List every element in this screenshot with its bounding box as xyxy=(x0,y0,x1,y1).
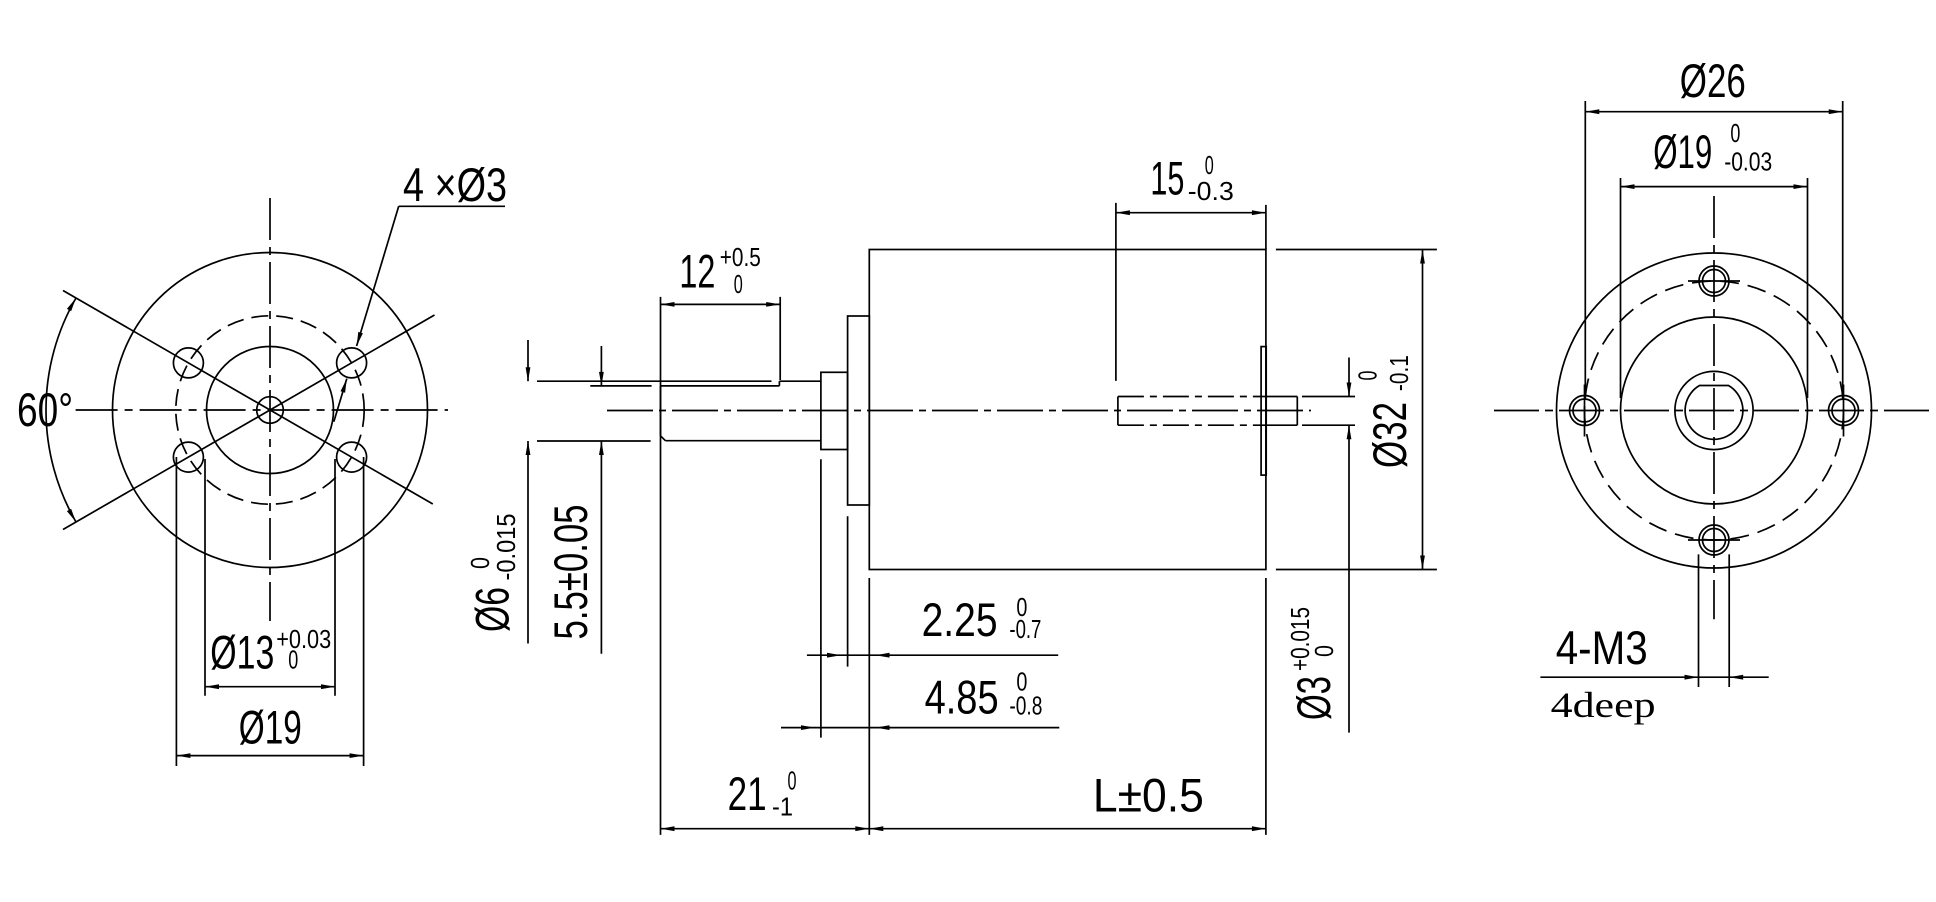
svg-text:2.25: 2.25 xyxy=(922,593,998,646)
middle view: 12 dimension line xyxy=(661,303,781,305)
svg-text:-0.015: -0.015 xyxy=(491,514,521,581)
right view: center boss circle xyxy=(1675,371,1753,449)
svg-text:-0.03: -0.03 xyxy=(1724,147,1772,177)
left view: leader underline 4×Ø3 xyxy=(399,205,505,207)
right view: Ø26 dimension line xyxy=(1585,111,1842,113)
svg-text:-0.1: -0.1 xyxy=(1384,355,1414,391)
right view: pilot circle Ø19 xyxy=(1621,317,1808,504)
middle view: L left arrowhead xyxy=(869,826,883,831)
middle view: 5.5 dimension line lower xyxy=(600,441,602,654)
left view: leader tail below hole xyxy=(334,379,347,422)
right view: 4-M3 left extension line xyxy=(1698,554,1700,687)
left view: Ø13 right arrowhead xyxy=(321,684,335,689)
right view: 4-M3 dimension line xyxy=(1540,676,1768,678)
right view: right M3 hole major circle xyxy=(1829,396,1859,426)
middle view: rear bearing plate xyxy=(1261,347,1266,476)
svg-text:0: 0 xyxy=(288,645,298,675)
middle view: 12 left arrowhead xyxy=(661,302,675,307)
middle view: 4.85 right arrowhead xyxy=(876,725,890,730)
middle view: 12 right extension line xyxy=(779,297,781,380)
middle view: Ø6 dimension line lower xyxy=(527,441,529,644)
middle view: shaft end face xyxy=(660,386,662,436)
svg-text:4-M3: 4-M3 xyxy=(1556,621,1648,674)
svg-text:-0.7: -0.7 xyxy=(1009,614,1041,644)
middle view: shaft flat top line xyxy=(661,385,780,387)
left view: Ø19 left arrowhead xyxy=(176,753,190,758)
middle view: Ø3 dimension line upper xyxy=(1348,358,1350,397)
left view: upper-left hole Ø3 xyxy=(173,348,203,378)
middle view: shaft bottom line xyxy=(665,440,821,442)
left view: Ø19 left extension line xyxy=(175,457,177,766)
svg-text:0: 0 xyxy=(1730,118,1740,148)
svg-text:+0.5: +0.5 xyxy=(720,242,761,272)
svg-text:0: 0 xyxy=(1309,645,1339,657)
svg-text:4 ×Ø3: 4 ×Ø3 xyxy=(403,158,507,211)
left view: lower-left hole Ø3 xyxy=(173,442,203,472)
right view: Ø19 left arrowhead xyxy=(1621,184,1635,189)
left view: boss circle Ø13 xyxy=(207,347,334,474)
left view: leader arrowhead at hole (upper) xyxy=(357,332,363,346)
middle view: 15 right extension line xyxy=(1265,205,1267,250)
right view: 4-M3 right extension line xyxy=(1728,554,1730,687)
middle view: Ø3 bottom arrowhead xyxy=(1347,425,1352,439)
middle view: rear shaft right end face xyxy=(1296,397,1298,426)
middle view: 2.25 left extension line xyxy=(820,459,822,737)
right view: left M3 hole major circle xyxy=(1570,396,1600,426)
middle view: bearing boss xyxy=(821,372,848,449)
middle view: L dimension line xyxy=(869,828,1266,830)
left view: Ø13 right extension line xyxy=(334,459,336,696)
left view: Ø13 left arrowhead xyxy=(205,684,219,689)
svg-text:Ø19: Ø19 xyxy=(239,701,302,754)
right view: bottom M3 hole minor circle xyxy=(1703,529,1726,552)
svg-text:-0.8: -0.8 xyxy=(1009,691,1042,721)
svg-text:5.5±0.05: 5.5±0.05 xyxy=(544,505,597,640)
left view: diagonal centerline LL-UR xyxy=(63,315,435,530)
right view: shaft circle with flat xyxy=(1685,386,1743,440)
left view: Ø19 right extension line xyxy=(363,457,365,766)
svg-text:Ø19: Ø19 xyxy=(1653,125,1712,178)
middle view: 15 dimension line xyxy=(1116,212,1266,214)
middle view: rear shaft bottom line (hidden) xyxy=(1118,424,1261,426)
svg-text:L±0.5: L±0.5 xyxy=(1093,769,1204,822)
middle view: 5.5 top arrowhead xyxy=(599,372,604,386)
middle view: Ø6 dimension line upper xyxy=(527,340,529,381)
left view: 60° dimension arc xyxy=(46,298,76,522)
middle view: Ø6 top extension line xyxy=(537,380,772,382)
middle view: Ø32 bottom extension line xyxy=(1276,569,1437,571)
middle view: Ø32 dimension line xyxy=(1422,250,1424,570)
left view: vertical centerline xyxy=(269,198,271,621)
middle view: Ø32 bottom arrowhead xyxy=(1420,556,1425,570)
left view: lower-right hole Ø3 xyxy=(337,442,367,472)
middle view: L right extension line xyxy=(1265,578,1267,835)
middle view: 15 left extension line xyxy=(1115,203,1117,381)
svg-text:Ø6: Ø6 xyxy=(466,587,519,632)
middle view: 2.25 left arrowhead xyxy=(827,653,841,658)
middle view: 12 right arrowhead xyxy=(766,302,780,307)
svg-text:-1: -1 xyxy=(772,791,793,821)
right view: outer circle body Ø32 xyxy=(1557,253,1872,568)
middle view: Ø32 top extension line xyxy=(1276,249,1437,251)
left view: Ø19 dimension line xyxy=(176,755,363,757)
svg-text:4.85: 4.85 xyxy=(925,671,999,724)
middle view: Ø6 bottom arrowhead xyxy=(526,441,531,455)
left view: Ø13 left extension line xyxy=(204,459,206,696)
svg-text:15: 15 xyxy=(1150,151,1184,204)
right view: top M3 hole major circle xyxy=(1699,266,1729,296)
left view: horizontal centerline xyxy=(76,409,448,411)
middle view: L right arrowhead xyxy=(1252,826,1266,831)
right view: Ø19 right arrowhead xyxy=(1794,184,1808,189)
middle view: 2.25 right extension line xyxy=(847,516,849,666)
svg-text:60°: 60° xyxy=(17,383,73,436)
right view: 4-M3 right arrowhead xyxy=(1729,675,1743,680)
right view: bolt circle Ø26 (dashed) xyxy=(1585,281,1844,540)
svg-text:4deep: 4deep xyxy=(1551,685,1656,725)
right view: left hole vertical tick xyxy=(1584,385,1586,437)
middle view: 4.85 left arrowhead xyxy=(801,725,815,730)
left view: Ø19 right arrowhead xyxy=(350,753,364,758)
svg-text:0: 0 xyxy=(1353,371,1383,381)
middle view: 15 right arrowhead xyxy=(1252,210,1266,215)
right view: Ø26 left extension line xyxy=(1584,101,1586,400)
middle view: Ø6 bottom extension line xyxy=(537,440,651,442)
middle view: 21 right arrowhead xyxy=(855,826,869,831)
middle view: motor body outline Ø32 xyxy=(869,250,1266,570)
svg-text:Ø3: Ø3 xyxy=(1287,676,1340,720)
middle view: Ø3 top arrowhead xyxy=(1347,383,1352,397)
middle view: 5.5 dimension line upper xyxy=(600,346,602,386)
right view: Ø26 right arrowhead xyxy=(1829,109,1843,114)
middle view: rear shaft top line (hidden) xyxy=(1118,396,1261,398)
left view: upper-right hole Ø3 xyxy=(337,348,367,378)
left view: outer circle body Ø32 xyxy=(113,253,428,568)
middle view: rear shaft left end face xyxy=(1117,397,1119,426)
svg-text:+0.03: +0.03 xyxy=(276,624,331,654)
middle view: Ø3 bottom extension line xyxy=(1302,424,1355,426)
right view: left M3 hole minor circle xyxy=(1573,399,1596,422)
right view: top M3 hole minor circle xyxy=(1703,270,1726,293)
left view: 60° arc top arrowhead xyxy=(67,298,76,311)
middle view: shaft top line xyxy=(779,380,821,382)
right view: Ø19 right extension line xyxy=(1807,178,1809,398)
middle view: 5.5 bottom arrowhead xyxy=(599,441,604,455)
middle view: Ø6 top arrowhead xyxy=(526,367,531,381)
svg-text:Ø13: Ø13 xyxy=(210,626,274,679)
middle view: 2.25 right arrowhead xyxy=(876,653,890,658)
right view: Ø19 left extension line xyxy=(1620,178,1622,398)
middle view: gearbox front plate xyxy=(848,316,870,505)
right view: Ø19 dimension line xyxy=(1621,186,1808,188)
middle view: rear shaft bottom line xyxy=(1261,424,1297,426)
middle view: 5.5 flat extension line xyxy=(590,385,651,387)
middle view: shaft bottom chamfer xyxy=(661,436,666,441)
middle view: 4.85 dimension line xyxy=(781,727,1059,729)
middle view: shaft flat step xyxy=(778,381,780,386)
left view: center hole circle xyxy=(257,397,284,424)
middle view: main centerline xyxy=(607,410,1311,412)
svg-text:0: 0 xyxy=(734,269,743,299)
right view: vertical centerline xyxy=(1713,196,1715,619)
right view: 4-M3 left arrowhead xyxy=(1685,675,1699,680)
left view: 60° arc bottom arrowhead xyxy=(67,509,76,522)
svg-text:Ø26: Ø26 xyxy=(1680,54,1746,107)
svg-text:+0.015: +0.015 xyxy=(1285,607,1315,671)
middle view: rear shaft top line xyxy=(1261,396,1297,398)
right view: right hole vertical tick xyxy=(1843,385,1845,437)
left view: Ø13 dimension line xyxy=(205,686,335,688)
middle view: 21 left arrowhead xyxy=(661,826,675,831)
middle view: Ø3 dimension line lower xyxy=(1348,425,1350,732)
right view: top hole horizontal tick xyxy=(1688,280,1740,282)
middle view: body-face extension line xyxy=(868,578,870,835)
right view: bottom M3 hole major circle xyxy=(1699,525,1729,555)
middle view: 15 left arrowhead xyxy=(1116,210,1130,215)
left view: bolt circle Ø19 (dashed) xyxy=(176,316,364,504)
right view: Ø26 right extension line xyxy=(1842,101,1844,400)
middle view: Ø3 top extension line xyxy=(1302,396,1355,398)
left view: leader arrowhead at hole (lower) xyxy=(341,379,347,393)
right view: right M3 hole minor circle xyxy=(1832,399,1855,422)
svg-text:-0.3: -0.3 xyxy=(1188,176,1234,206)
middle view: 12 left extension line xyxy=(660,297,662,835)
right view: bottom hole horizontal tick xyxy=(1688,539,1740,541)
middle view: Ø32 top arrowhead xyxy=(1420,250,1425,264)
left view: leader line to hole xyxy=(357,206,399,346)
right view: horizontal centerline xyxy=(1494,410,1931,412)
svg-text:21: 21 xyxy=(728,767,767,820)
svg-text:12: 12 xyxy=(679,244,715,297)
middle view: 2.25 dimension line xyxy=(807,654,1058,656)
middle view: 21 dimension line xyxy=(661,828,870,830)
left view: diagonal centerline UL-LR xyxy=(63,291,433,505)
right view: Ø26 left arrowhead xyxy=(1585,109,1599,114)
svg-text:Ø32: Ø32 xyxy=(1363,402,1416,468)
